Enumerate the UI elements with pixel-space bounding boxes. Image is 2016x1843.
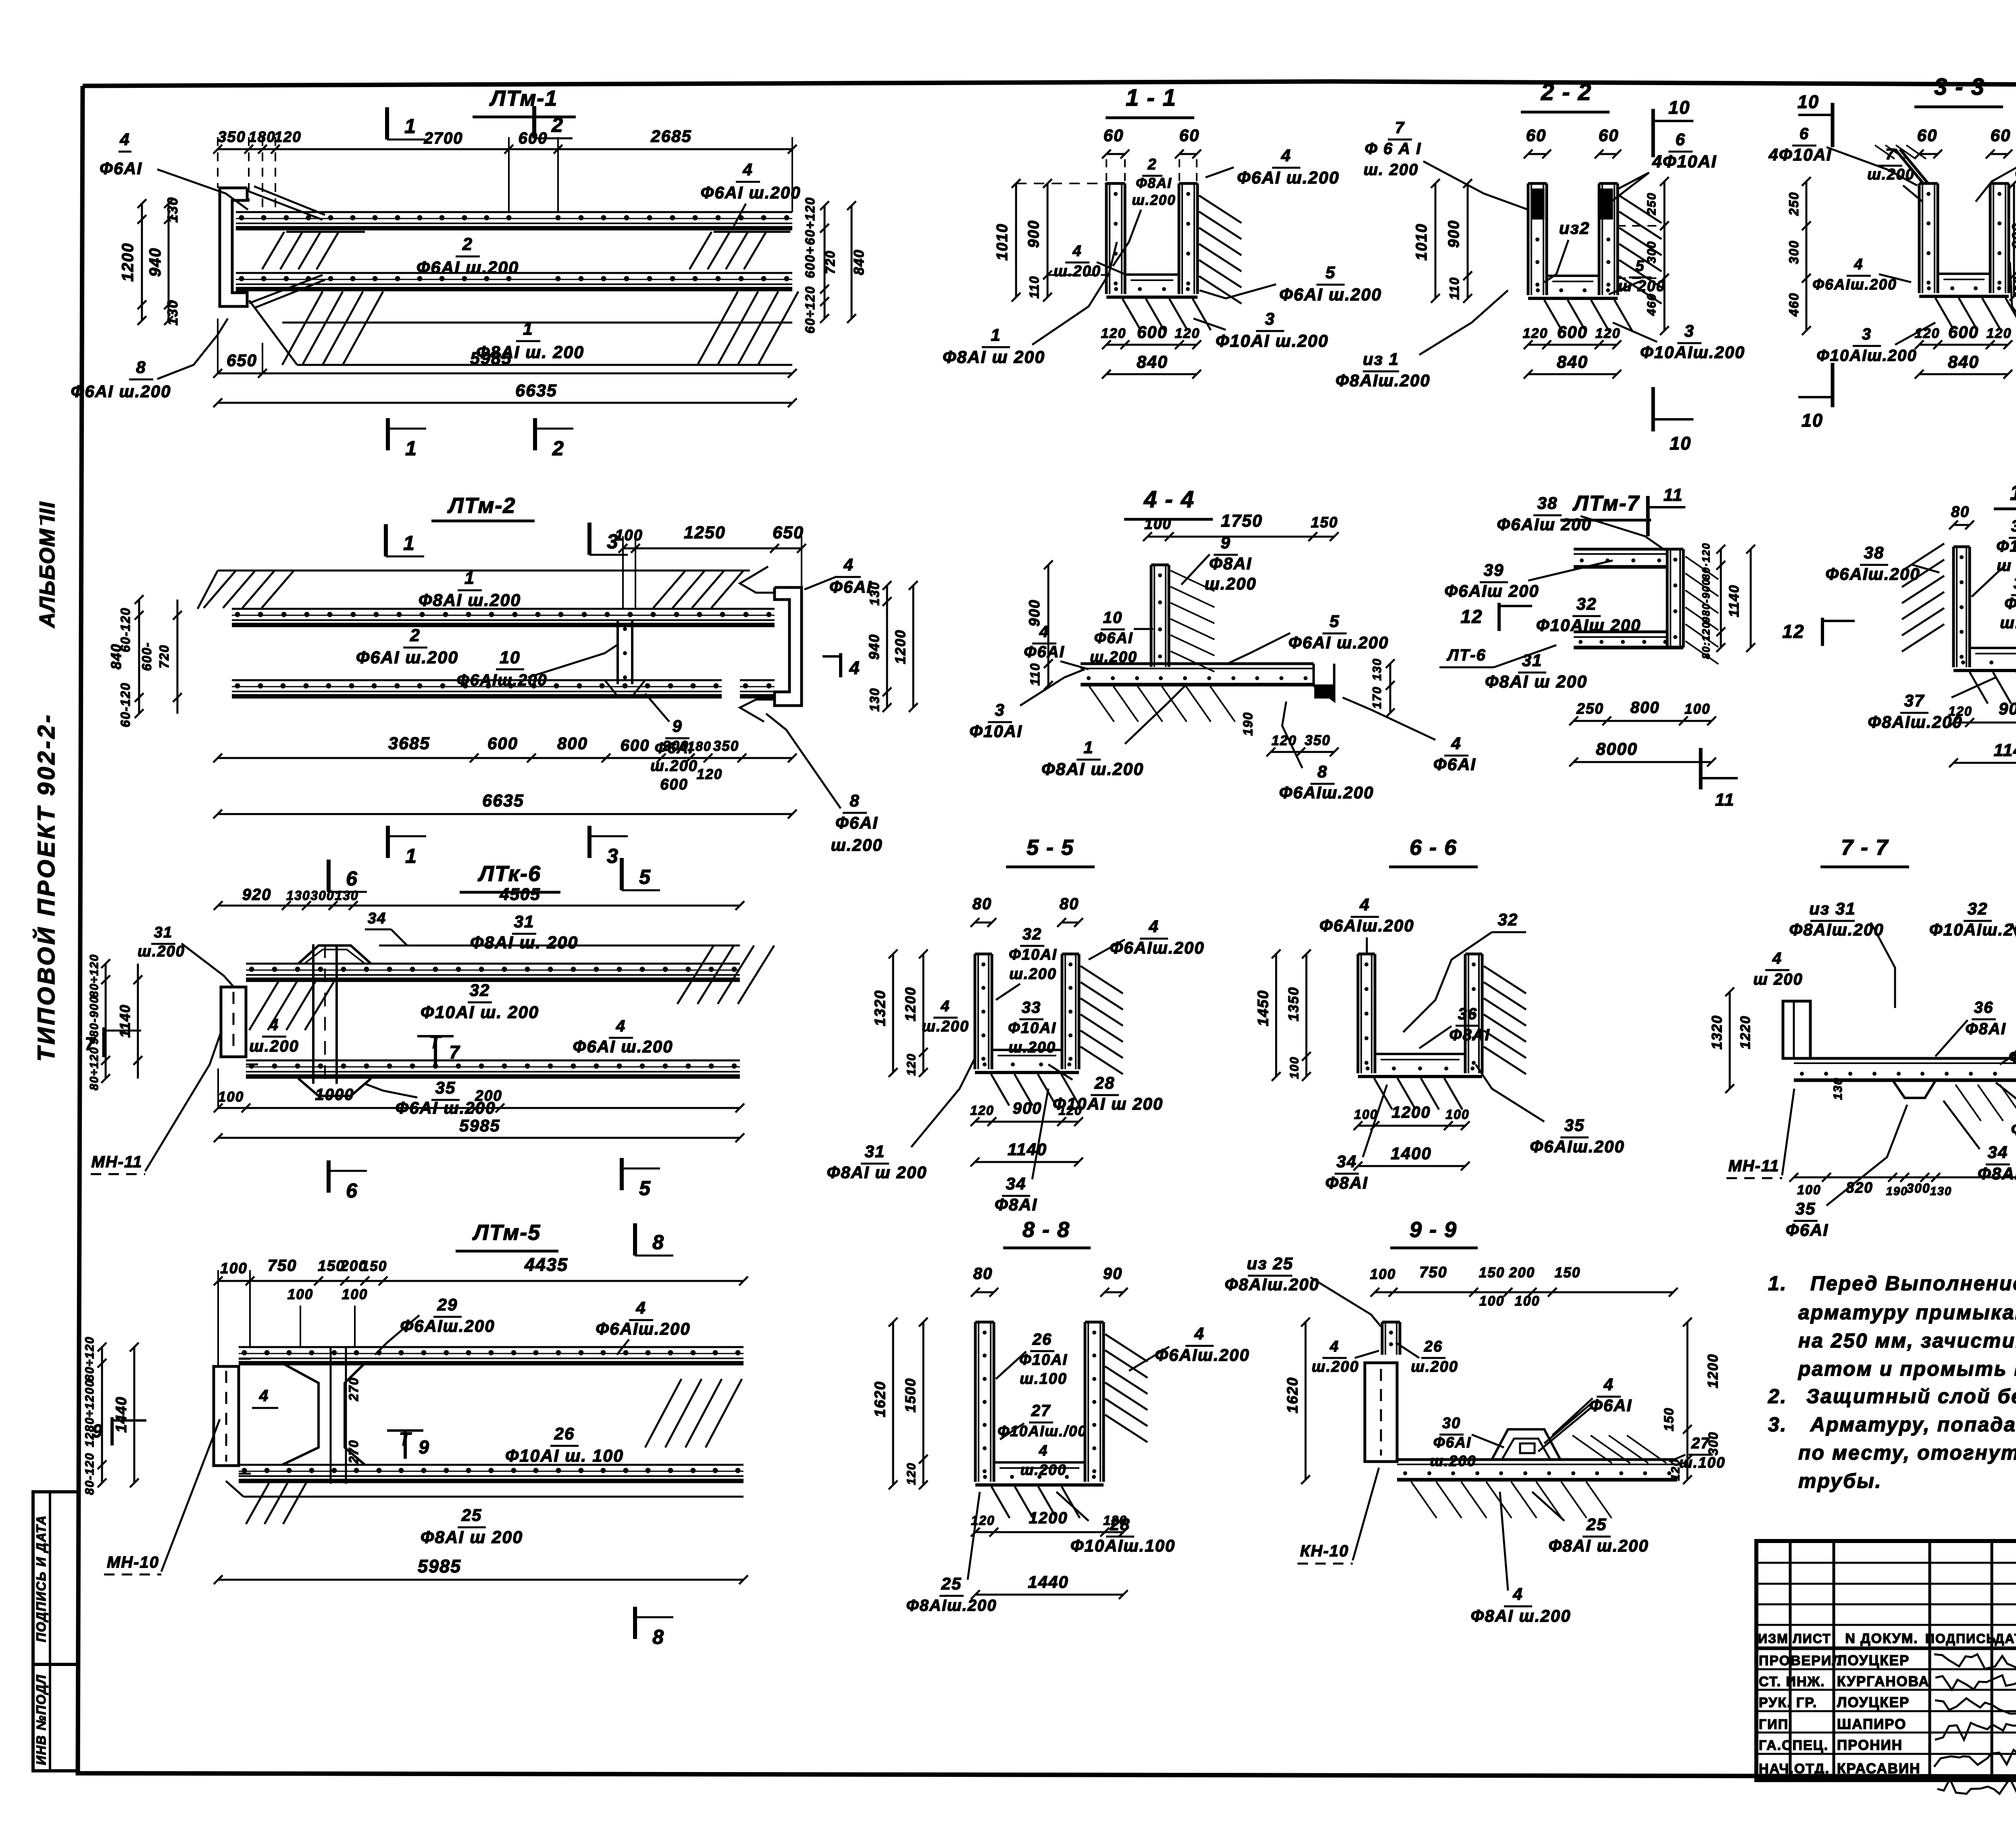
svg-text:1.: 1. — [1768, 1272, 1787, 1295]
svg-text:ш. 200: ш. 200 — [1364, 161, 1419, 179]
section 5-5 label 28 — [1048, 1064, 1163, 1113]
section 5-5 label 33 — [1008, 999, 1056, 1056]
svg-text:4: 4 — [742, 160, 753, 179]
svg-text:6: 6 — [1675, 130, 1685, 149]
svg-text:120: 120 — [1103, 1513, 1127, 1528]
plan ЛТк-6 left block МН-11 — [221, 980, 258, 1064]
svg-text:120: 120 — [697, 766, 723, 782]
svg-text:130: 130 — [165, 300, 181, 325]
svg-text:36: 36 — [1974, 999, 1994, 1016]
svg-text:Ф6АIш.200: Ф6АIш.200 — [1530, 1137, 1624, 1156]
plan ЛТм-2 right vert dims — [866, 581, 918, 712]
svg-text:Ф8АI ш.200: Ф8АI ш.200 — [1549, 1536, 1649, 1555]
svg-text:100: 100 — [218, 1089, 244, 1105]
margin caption Типовой проект 902-2- — [32, 712, 60, 1062]
svg-text:Ф8АI: Ф8АI — [1209, 554, 1252, 573]
section 2-2 flag 10 bottom — [1653, 387, 1693, 454]
svg-text:1440: 1440 — [113, 1396, 129, 1433]
svg-text:ГА.СПЕЦ.: ГА.СПЕЦ. — [1759, 1738, 1829, 1753]
svg-text:10: 10 — [1797, 92, 1819, 112]
svg-text:Ф6АI ш.200: Ф6АI ш.200 — [1279, 285, 1382, 304]
svg-text:Ф6АIш.200: Ф6АIш.200 — [596, 1319, 690, 1338]
svg-text:4Ф10АI: 4Ф10АI — [1652, 152, 1717, 171]
svg-text:Ф8АI ш.200: Ф8АI ш.200 — [419, 591, 521, 610]
section 5-5 label 34 — [995, 1089, 1048, 1214]
section 1-1 label 4 right — [1206, 146, 1339, 187]
svg-text:Ф8АI ш.200: Ф8АI ш.200 — [1471, 1606, 1571, 1625]
section 4-4 label 4 Ф6АI — [1024, 623, 1089, 669]
section 7-7 label 36 — [1935, 999, 2006, 1056]
svg-text:100: 100 — [1479, 1293, 1505, 1309]
svg-text:100: 100 — [1288, 1056, 1301, 1079]
svg-text:Ф10АIш.100: Ф10АIш.100 — [1070, 1536, 1176, 1555]
svg-text:Ф8АI ш.200: Ф8АI ш.200 — [2011, 1120, 2016, 1139]
plan ЛТм-5 top dims — [214, 1254, 748, 1366]
svg-text:Ф10АIш 200: Ф10АIш 200 — [1536, 616, 1641, 635]
plan ЛТм-1 right vert dims — [803, 197, 867, 333]
plan ЛТм-2 top slab outline — [198, 571, 750, 609]
plan ЛТм-2 section flag 1 bottom — [388, 826, 426, 867]
svg-text:90: 90 — [1103, 1265, 1123, 1283]
svg-text:12: 12 — [1460, 606, 1483, 627]
plan ЛТм-5 flag 8 top — [635, 1223, 673, 1256]
svg-text:39: 39 — [2014, 575, 2016, 592]
svg-text:1140: 1140 — [1008, 1140, 1047, 1159]
svg-text:1500: 1500 — [903, 1378, 918, 1412]
svg-text:2: 2 — [1147, 156, 1157, 173]
section 1-1 body — [1106, 183, 1241, 330]
svg-text:110: 110 — [1028, 662, 1042, 685]
svg-text:31: 31 — [514, 912, 535, 931]
svg-text:Ф6АI: Ф6АI — [1433, 1434, 1471, 1451]
section 2-2 insert plates — [1532, 190, 1612, 219]
svg-text:150: 150 — [1662, 1407, 1676, 1431]
svg-text:МН-11: МН-11 — [91, 1153, 142, 1171]
svg-text:10: 10 — [1668, 97, 1690, 118]
svg-text:12: 12 — [1782, 621, 1804, 642]
svg-text:ш.200: ш.200 — [137, 943, 185, 960]
svg-text:Ф8АIш.200: Ф8АIш.200 — [1789, 920, 1884, 939]
section 9-9 label 4 bottom — [1471, 1492, 1571, 1625]
svg-text:Ф6АI: Ф6АI — [2004, 595, 2016, 612]
section ЛТм-7 title — [1560, 491, 1651, 520]
section 3-3 title — [1914, 74, 2003, 107]
svg-text:60: 60 — [1599, 126, 1619, 145]
svg-text:120: 120 — [905, 1462, 918, 1485]
svg-text:2: 2 — [462, 235, 473, 254]
plan ЛТм-5 flag 8 bottom — [635, 1607, 673, 1648]
svg-text:7 - 7: 7 - 7 — [1841, 835, 1889, 860]
svg-text:ИЗМ: ИЗМ — [1758, 1631, 1789, 1646]
svg-text:3 - 3: 3 - 3 — [1934, 74, 1985, 100]
svg-text:120: 120 — [1101, 326, 1127, 341]
svg-text:из 1: из 1 — [1363, 350, 1399, 369]
svg-text:Ф10АI: Ф10АI — [1009, 946, 1057, 963]
svg-text:1320: 1320 — [872, 990, 888, 1026]
section 7-7 label 33 — [2000, 1026, 2016, 1066]
svg-text:1200: 1200 — [903, 987, 918, 1021]
svg-text:31: 31 — [154, 924, 173, 941]
svg-text:ЛТм-1: ЛТм-1 — [489, 86, 558, 110]
svg-text:ратом и промыть водой под давл: ратом и промыть водой под давлением — [1797, 1358, 2016, 1380]
svg-text:трубы.: трубы. — [1798, 1470, 1882, 1492]
svg-text:ПРОВЕРИЛ: ПРОВЕРИЛ — [1759, 1653, 1842, 1668]
svg-text:АЛЬБОМ III: АЛЬБОМ III — [35, 501, 59, 629]
svg-text:Ф6АIш.200: Ф6АIш.200 — [1812, 276, 1897, 293]
section 3-3 rebar spike — [1875, 145, 1928, 183]
svg-text:ш.200: ш.200 — [1132, 192, 1176, 208]
plan ЛТк-6 labels top — [137, 912, 578, 987]
plan ЛТм-1 top band — [236, 212, 792, 228]
svg-text:110: 110 — [1027, 275, 1041, 298]
svg-text:900: 900 — [1999, 699, 2016, 718]
svg-text:100: 100 — [1515, 1293, 1540, 1309]
section 6-6 left dims — [1255, 950, 1311, 1081]
svg-text:ПРОНИН: ПРОНИН — [1837, 1737, 1903, 1753]
section 9-9 label 27 — [1669, 1435, 1725, 1471]
plan ЛТк-6 center pipe — [313, 944, 337, 1084]
svg-text:1: 1 — [403, 532, 415, 554]
svg-text:270: 270 — [346, 1377, 361, 1401]
plan ЛТм-5 lower slab — [226, 1481, 744, 1524]
svg-text:8: 8 — [652, 1231, 664, 1254]
svg-text:34: 34 — [1337, 1152, 1357, 1171]
section 2-2 label 6 4Ф10АI — [1611, 130, 1717, 202]
plan ЛТк-6 bottom dims — [214, 1068, 744, 1142]
section 3-3 label 7 ш.200 — [1867, 146, 1922, 202]
section 8-8 body — [975, 1322, 1148, 1518]
section 8-8 bottom dims — [971, 1509, 1128, 1599]
svg-text:900: 900 — [2010, 223, 2016, 249]
svg-text:Ф10АI: Ф10АI — [1019, 1352, 1068, 1368]
svg-text:32: 32 — [2011, 517, 2016, 535]
svg-text:120: 120 — [1272, 733, 1297, 748]
svg-text:11: 11 — [1664, 485, 1683, 505]
plan ЛТм-1 label 2 Ф6АI ш.200 — [417, 235, 519, 277]
svg-text:80÷120: 80÷120 — [88, 954, 101, 998]
svg-text:26: 26 — [1424, 1338, 1443, 1355]
svg-text:1200: 1200 — [119, 243, 137, 282]
svg-text:2.: 2. — [1768, 1385, 1787, 1408]
svg-text:250: 250 — [1576, 700, 1604, 717]
plan ЛТм-1 label 4 Ф6АI — [100, 130, 248, 210]
svg-text:120: 120 — [1915, 326, 1940, 341]
svg-text:5: 5 — [639, 1177, 651, 1200]
svg-text:980-900: 980-900 — [1700, 579, 1712, 623]
svg-text:1350: 1350 — [1286, 987, 1302, 1021]
plan ЛТк-6 МН-11 label — [91, 1032, 221, 1174]
section 1-1 label 1 — [943, 242, 1117, 367]
svg-text:4: 4 — [269, 1016, 279, 1034]
section 2-2 label из 1 — [1335, 290, 1508, 390]
section 6-6 body — [1358, 954, 1526, 1110]
section ЛТм-7 body — [1574, 549, 1718, 664]
section 8-8 label 26 — [996, 1331, 1068, 1387]
svg-text:ЛТм-7: ЛТм-7 — [1572, 491, 1640, 515]
svg-text:130: 130 — [1370, 658, 1384, 681]
svg-text:ЛТ-6: ЛТ-6 — [1446, 646, 1486, 664]
svg-text:130: 130 — [1930, 1185, 1952, 1198]
svg-text:460: 460 — [1787, 292, 1801, 317]
plan ЛТм-1 section flag 1 bottom — [388, 418, 426, 460]
svg-text:ш.200: ш.200 — [1008, 1039, 1056, 1056]
plan ЛТм-1 bottom band — [236, 273, 792, 289]
svg-text:ш.200: ш.200 — [249, 1037, 299, 1055]
svg-text:5: 5 — [1325, 263, 1335, 282]
plan ЛТм-2 section flag 3 bottom — [589, 826, 628, 867]
svg-text:25: 25 — [461, 1506, 482, 1524]
svg-text:Ф8АI: Ф8АI — [1325, 1173, 1368, 1192]
svg-text:8: 8 — [1317, 762, 1327, 781]
svg-text:35: 35 — [1795, 1199, 1816, 1218]
section 6-6 label 36 — [1419, 1005, 1490, 1048]
svg-text:60+120: 60+120 — [803, 197, 817, 245]
svg-text:350: 350 — [713, 738, 739, 754]
margin caption Альбом III — [35, 501, 59, 629]
svg-text:200: 200 — [1509, 1265, 1535, 1281]
plan ЛТм-2 left vert dims — [108, 595, 182, 727]
svg-text:840: 840 — [108, 643, 124, 669]
section 4-4 label 10 — [1090, 609, 1153, 666]
plan ЛТм-5 МН-10 label — [104, 1419, 220, 1574]
svg-text:300: 300 — [1706, 1431, 1720, 1455]
svg-text:1200: 1200 — [1705, 1354, 1721, 1388]
svg-text:7: 7 — [449, 1042, 460, 1062]
svg-text:Арматуру, попадающую в отверст: Арматуру, попадающую в отверстия, обреза… — [1810, 1413, 2016, 1436]
svg-text:2: 2 — [551, 114, 564, 136]
plan ЛТм-1 dim 180 — [248, 129, 276, 145]
svg-text:Ф8АI ш. 200: Ф8АI ш. 200 — [470, 933, 578, 952]
section 9-9 right dims — [1662, 1318, 1721, 1484]
plan ЛТм-2 section flag 3 top — [589, 523, 628, 555]
svg-text:Ф10АI ш. 200: Ф10АI ш. 200 — [421, 1003, 539, 1022]
svg-text:4: 4 — [1148, 917, 1159, 936]
plan ЛТм-1 section flag 2 top — [534, 106, 573, 138]
svg-text:9: 9 — [92, 1420, 103, 1441]
plan ЛТк-6 flag 7 left — [85, 1027, 141, 1057]
svg-text:1140: 1140 — [117, 1004, 133, 1037]
svg-text:ПОДПИСЬ И ДАТА: ПОДПИСЬ И ДАТА — [34, 1515, 48, 1642]
svg-text:4: 4 — [1359, 895, 1370, 914]
plan ЛТк-6 top band — [246, 964, 740, 980]
svg-text:2: 2 — [552, 437, 564, 460]
svg-text:Ф8АI ш 200: Ф8АI ш 200 — [827, 1163, 927, 1182]
plan ЛТм-1 top dim chain — [213, 137, 797, 212]
svg-text:НАЧ.ОТД.: НАЧ.ОТД. — [1759, 1761, 1830, 1776]
plan ЛТм-2 right bracket — [740, 566, 802, 722]
svg-text:3685: 3685 — [388, 734, 430, 753]
svg-text:840: 840 — [1137, 352, 1168, 372]
section 8-8 left dims — [872, 1318, 928, 1489]
svg-text:Ф6АI: Ф6АI — [1024, 643, 1064, 661]
svg-text:4: 4 — [1451, 734, 1461, 753]
svg-text:6: 6 — [1799, 125, 1809, 143]
svg-text:940: 940 — [866, 634, 882, 660]
plan ЛТм-5 left block МН-10 — [214, 1359, 251, 1474]
svg-text:4435: 4435 — [524, 1254, 568, 1275]
svg-text:1200: 1200 — [893, 629, 908, 664]
svg-text:60: 60 — [1991, 126, 2011, 145]
svg-text:34: 34 — [368, 910, 386, 927]
plan ЛТм-2 center joint — [605, 620, 645, 696]
svg-text:4: 4 — [616, 1017, 626, 1035]
svg-text:4: 4 — [259, 1387, 269, 1405]
section 7-7 label 31 — [1996, 1083, 2016, 1139]
svg-text:80:120: 80:120 — [1700, 622, 1712, 659]
svg-text:180: 180 — [687, 739, 711, 754]
plan ЛТм-2 top band — [232, 609, 775, 625]
section 5-5 title — [1006, 835, 1095, 867]
svg-text:Ф 6 А I: Ф 6 А I — [1365, 140, 1422, 158]
svg-text:4: 4 — [1854, 256, 1863, 273]
svg-text:ш.200: ш.200 — [1009, 966, 1057, 983]
svg-text:Ф6АIш.200: Ф6АIш.200 — [1279, 783, 1374, 802]
section 7-7 body — [1783, 1001, 2016, 1121]
svg-text:4: 4 — [1039, 1442, 1048, 1459]
svg-text:120: 120 — [971, 1513, 995, 1528]
svg-text:300: 300 — [310, 888, 334, 903]
svg-text:900: 900 — [1013, 1100, 1042, 1117]
svg-text:1200: 1200 — [1392, 1104, 1431, 1121]
svg-text:600: 600 — [621, 737, 650, 754]
section 3-3 label 3 — [1816, 323, 1935, 364]
section 11-11 top dims — [1949, 504, 2016, 529]
plan ЛТм-1 lower right hatch strip — [698, 292, 798, 365]
section 3-3 flag 10 top — [1797, 92, 1833, 147]
svg-text:МН-10: МН-10 — [107, 1554, 159, 1571]
svg-text:650: 650 — [227, 351, 257, 370]
svg-text:120: 120 — [274, 129, 302, 145]
svg-text:4: 4 — [1772, 950, 1782, 967]
svg-text:8 - 8: 8 - 8 — [1023, 1218, 1070, 1242]
section 7-7 label из 31 — [1789, 899, 1895, 1008]
svg-text:120: 120 — [1523, 326, 1548, 341]
section 11-11 label 39 — [2000, 575, 2016, 632]
section 1-1 title — [1106, 85, 1194, 118]
section 11-11 label 37 — [1868, 677, 1996, 731]
svg-text:11 - 11: 11 - 11 — [2010, 481, 2016, 505]
svg-text:460: 460 — [1645, 293, 1658, 316]
svg-text:ш.100: ш.100 — [1679, 1454, 1726, 1471]
svg-text:32: 32 — [1968, 899, 1988, 918]
section 4-4 slab hatch below — [1089, 685, 1235, 722]
svg-text:250: 250 — [1787, 192, 1801, 216]
section ЛТм-7 flag 11 bottom — [1701, 748, 1738, 810]
section 3-3 flag 10 bottom — [1798, 363, 1833, 431]
plan ЛТм-2 bottom dims — [213, 734, 797, 818]
svg-text:5: 5 — [1329, 612, 1339, 631]
svg-text:2685: 2685 — [650, 127, 691, 146]
svg-text:арматуру примыкающих лотков ЛТ: арматуру примыкающих лотков ЛТ-6, ЛТ-4 о… — [1798, 1301, 2016, 1324]
plan ЛТм-1 bottom dim 650-5985 — [213, 319, 797, 378]
svg-text:130: 130 — [1831, 1077, 1845, 1100]
svg-text:100: 100 — [1354, 1107, 1378, 1122]
svg-text:800: 800 — [1631, 699, 1660, 716]
svg-text:Ф6АIш 200: Ф6АIш 200 — [1497, 515, 1591, 534]
svg-text:1010: 1010 — [1413, 223, 1430, 261]
svg-text:38: 38 — [1537, 494, 1558, 512]
svg-text:1620: 1620 — [872, 1381, 888, 1417]
svg-text:3: 3 — [1265, 309, 1275, 328]
svg-text:5985: 5985 — [418, 1556, 461, 1576]
svg-text:ш.200: ш.200 — [1020, 1462, 1067, 1478]
svg-text:32: 32 — [470, 981, 490, 1000]
svg-text:120: 120 — [1987, 326, 2012, 341]
svg-text:Ф8АI ш 200: Ф8АI ш 200 — [1485, 672, 1587, 691]
svg-text:3: 3 — [607, 530, 619, 553]
plan ЛТм-5 bottom dim — [214, 1556, 748, 1584]
svg-text:1: 1 — [404, 115, 417, 137]
svg-text:3: 3 — [607, 845, 619, 867]
svg-text:120: 120 — [1175, 326, 1200, 341]
plan ЛТм-2 label 1 Ф8АI ш.200 — [419, 569, 521, 610]
svg-text:60÷120: 60÷120 — [803, 286, 817, 334]
svg-text:Ф6АI ш.200: Ф6АI ш.200 — [356, 648, 458, 667]
section 3-3 label 6 4Ф10АI — [1768, 125, 1917, 185]
section 4-4 label 8 — [1279, 702, 1374, 802]
svg-text:840: 840 — [851, 249, 867, 275]
svg-text:4: 4 — [1512, 1585, 1523, 1604]
svg-text:ш.200: ш.200 — [1054, 263, 1101, 280]
section 11-11 label 38 — [1825, 543, 1939, 583]
svg-text:100: 100 — [1797, 1183, 1821, 1197]
svg-text:КУРГАНОВА: КУРГАНОВА — [1837, 1674, 1930, 1689]
section 9-9 label 26 — [1396, 1338, 1458, 1375]
plan ЛТм-1 dim 350 — [218, 129, 246, 146]
svg-text:Ф6АI: Ф6АI — [835, 813, 878, 832]
plan ЛТк-6 bottom hat — [298, 1079, 371, 1096]
section 5-5 label 4 right — [1089, 917, 1205, 960]
svg-text:840: 840 — [1557, 352, 1588, 372]
svg-text:5985: 5985 — [470, 349, 512, 368]
svg-text:80: 80 — [1060, 895, 1079, 913]
section 9-9 label из 25 — [1225, 1254, 1381, 1327]
section ЛТм-7 label ЛТ-6 — [1439, 645, 1556, 667]
svg-text:Защитный слой бетона 15 мм: Защитный слой бетона 15 мм — [1806, 1385, 2016, 1408]
section 6-6 label 34 — [1325, 1085, 1387, 1192]
svg-text:1620: 1620 — [1284, 1377, 1301, 1413]
section ЛТм-7 right dims — [1700, 543, 1755, 659]
plan ЛТк-6 flag 5 bottom — [622, 1158, 660, 1200]
plan ЛТм-2 top dim chain — [615, 523, 806, 609]
svg-text:ЛОУЦКЕР: ЛОУЦКЕР — [1837, 1695, 1910, 1710]
svg-text:4: 4 — [1194, 1324, 1204, 1343]
svg-text:170: 170 — [1370, 686, 1384, 709]
svg-text:110: 110 — [2012, 276, 2016, 298]
svg-text:4Ф10АI: 4Ф10АI — [1768, 145, 1832, 164]
section 7-7 title — [1820, 835, 1909, 867]
svg-text:Ф6АIш.200: Ф6АIш.200 — [1319, 916, 1414, 935]
svg-text:3: 3 — [995, 700, 1005, 719]
plan ЛТм-1 title — [473, 86, 576, 117]
svg-text:35: 35 — [1564, 1116, 1585, 1135]
svg-text:7: 7 — [1395, 119, 1405, 137]
section 3-3 bottom dims — [1915, 323, 2012, 379]
svg-text:36: 36 — [1458, 1005, 1478, 1023]
section 4-4 top dims — [1143, 511, 1339, 541]
section 9-9 left dims — [1284, 1318, 1310, 1484]
section 6-6 label 4 top — [1319, 895, 1414, 954]
svg-text:1320: 1320 — [1709, 1015, 1725, 1050]
svg-text:Ф6АI: Ф6АI — [100, 159, 142, 178]
svg-text:100: 100 — [1445, 1107, 1469, 1122]
section ЛТм-7 flag 12 left — [1460, 603, 1532, 631]
svg-text:8000: 8000 — [1596, 739, 1638, 759]
plan ЛТм-1 label 4 Ф6АI ш.200 right — [701, 160, 801, 226]
svg-text:2 - 2: 2 - 2 — [1541, 79, 1592, 105]
svg-text:120: 120 — [1669, 1459, 1682, 1481]
svg-text:29: 29 — [437, 1295, 458, 1314]
